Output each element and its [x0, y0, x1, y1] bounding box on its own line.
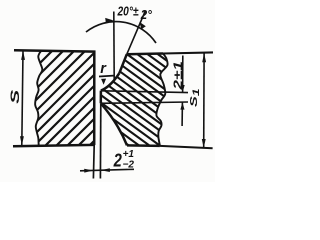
- right plate wavy break edge: [156, 54, 167, 146]
- S1 dimension bottom arrowhead: [202, 139, 206, 148]
- S dimension bottom arrowhead: [20, 136, 24, 145]
- 2pm1 upper leg: [182, 56, 184, 93]
- left plate hatching: [0, 40, 195, 150]
- 2pm1 lower leg: [181, 102, 183, 126]
- angle dimension arc: [86, 22, 156, 43]
- S dimension line: [22, 51, 23, 145]
- gap left arrowhead: [84, 169, 93, 173]
- angle dimension: vertical reference line: [113, 12, 115, 80]
- S1 dimension top arrowhead: [202, 53, 206, 62]
- root radius curve: [101, 73, 119, 90]
- svg-text:−2: −2: [123, 159, 135, 170]
- 2pm1 down arrowhead: [181, 85, 185, 93]
- left plate wavy break edge: [35, 51, 42, 146]
- gap dimension line: [80, 169, 134, 171]
- angle dimension: bevel extension line: [127, 11, 146, 55]
- svg-text:2°: 2°: [140, 7, 153, 22]
- r leader bar: [99, 75, 114, 78]
- gap right arrowhead: [101, 168, 110, 172]
- bevel edge: [119, 54, 127, 73]
- S1 bottom extension line: [160, 146, 213, 148]
- bottom edge: [127, 144, 160, 147]
- gap extension line right (root face extended): [99, 103, 101, 178]
- svg-text:20°±: 20°±: [117, 3, 139, 18]
- svg-text:+1: +1: [123, 149, 135, 160]
- S dimension top arrowhead: [21, 51, 25, 60]
- left plate outline: top edge + right edge: [13, 50, 94, 146]
- right plate hatching: [96, 0, 215, 216]
- svg-text:S: S: [8, 89, 21, 104]
- right plate outline: top edge: [101, 54, 168, 146]
- S1 top extension line (top edge extended): [163, 52, 213, 53]
- 2pm1 up arrowhead: [180, 102, 184, 110]
- angle arc right arrowhead: [139, 22, 146, 30]
- S1 dimension line: [203, 53, 205, 148]
- angle arc left arrowhead: [105, 18, 114, 23]
- r leader arrow: [101, 79, 106, 85]
- gap extension line left (left plate edge extended): [92, 145, 95, 179]
- left plate bottom edge: [13, 145, 94, 146]
- svg-text:2±1: 2±1: [172, 61, 185, 90]
- 2pm1 bottom extension line: [101, 102, 188, 103]
- 2pm1 top extension line: [101, 91, 188, 93]
- svg-text:2: 2: [113, 150, 122, 170]
- lower transition edge: [101, 103, 127, 145]
- root face: [100, 91, 103, 104]
